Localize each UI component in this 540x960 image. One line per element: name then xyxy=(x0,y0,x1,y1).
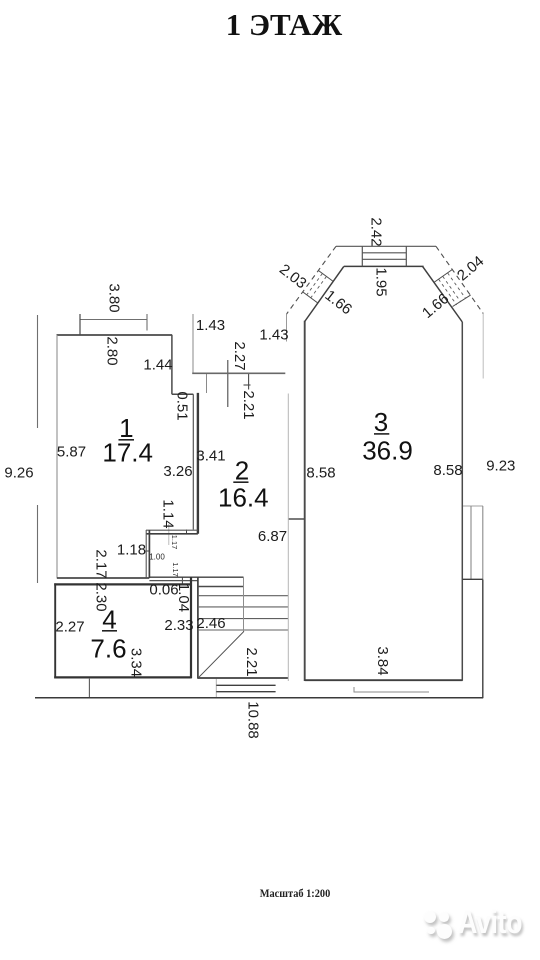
wire xyxy=(192,314,194,373)
wire xyxy=(405,246,407,266)
wire xyxy=(287,246,336,314)
wire xyxy=(148,530,150,578)
svg-text:3.26: 3.26 xyxy=(163,463,192,480)
svg-text:2.27: 2.27 xyxy=(231,341,248,370)
svg-text:1.95: 1.95 xyxy=(373,267,390,296)
wire xyxy=(190,577,192,678)
title 1 ЭТАЖ xyxy=(14,7,540,43)
wire xyxy=(149,580,198,582)
wire xyxy=(216,691,275,693)
wire xyxy=(439,279,457,305)
wire xyxy=(244,384,251,386)
wire xyxy=(192,372,285,374)
svg-text:2.17: 2.17 xyxy=(93,549,110,578)
wire xyxy=(56,335,58,579)
svg-text:9.23: 9.23 xyxy=(486,457,515,474)
wire xyxy=(443,276,461,302)
wire xyxy=(79,314,81,336)
wire xyxy=(198,606,289,608)
svg-text:1.43: 1.43 xyxy=(259,326,288,343)
wire xyxy=(305,679,463,681)
svg-text:3.41: 3.41 xyxy=(196,447,225,464)
svg-text:1.44: 1.44 xyxy=(143,356,172,373)
wire xyxy=(362,252,406,254)
svg-text:1.17: 1.17 xyxy=(170,535,179,550)
wire xyxy=(215,679,217,698)
wire xyxy=(354,691,429,693)
wire xyxy=(482,314,484,379)
wire xyxy=(318,271,333,282)
wire xyxy=(336,245,436,247)
wire xyxy=(287,394,289,682)
wire xyxy=(181,577,183,585)
svg-text:1.66: 1.66 xyxy=(419,290,452,322)
wire xyxy=(463,578,483,580)
wire xyxy=(303,292,318,303)
wire xyxy=(353,687,355,693)
wire xyxy=(197,393,199,534)
svg-text:3.80: 3.80 xyxy=(106,283,123,312)
wire xyxy=(172,393,193,395)
wire xyxy=(344,265,424,267)
svg-text:2.46: 2.46 xyxy=(196,615,225,632)
wire xyxy=(146,314,148,331)
svg-text:17.4: 17.4 xyxy=(102,438,153,468)
wire xyxy=(54,676,192,678)
svg-text:7.6: 7.6 xyxy=(90,634,126,664)
svg-text:2.21: 2.21 xyxy=(243,647,260,676)
scale label xyxy=(52,888,538,900)
wire xyxy=(248,374,250,390)
wire xyxy=(54,583,56,678)
svg-text:2.80: 2.80 xyxy=(104,336,121,365)
svg-text:1.00: 1.00 xyxy=(149,553,165,562)
svg-text:2.33: 2.33 xyxy=(164,617,193,634)
wire xyxy=(482,506,484,579)
svg-text:16.4: 16.4 xyxy=(218,483,269,513)
svg-text:1.18: 1.18 xyxy=(117,541,146,558)
wire xyxy=(57,577,149,579)
wire xyxy=(146,533,198,535)
svg-text:1.14: 1.14 xyxy=(160,499,177,528)
svg-text:2.03: 2.03 xyxy=(276,261,309,292)
wire xyxy=(463,505,483,507)
wire xyxy=(461,322,463,681)
svg-text:2: 2 xyxy=(235,456,249,486)
wire xyxy=(453,295,471,306)
svg-text:8.58: 8.58 xyxy=(306,464,335,481)
svg-text:3: 3 xyxy=(374,407,388,437)
wire xyxy=(197,577,199,679)
wire xyxy=(198,677,289,679)
wire xyxy=(307,274,323,295)
wire xyxy=(206,374,208,393)
wire xyxy=(198,631,244,678)
wire xyxy=(216,684,275,686)
wire xyxy=(304,321,306,681)
svg-text:2.27: 2.27 xyxy=(55,618,84,635)
wire xyxy=(37,505,39,583)
wire xyxy=(168,524,170,545)
wire xyxy=(436,246,483,313)
wire xyxy=(35,697,483,699)
svg-text:1.17: 1.17 xyxy=(171,562,180,577)
wire xyxy=(186,530,188,535)
wire xyxy=(146,529,198,531)
svg-text:8.58: 8.58 xyxy=(433,462,462,479)
wire xyxy=(434,269,453,282)
wire xyxy=(362,258,406,260)
wire xyxy=(149,576,243,578)
svg-text:1.43: 1.43 xyxy=(196,317,225,334)
wire xyxy=(470,506,472,579)
wire xyxy=(305,266,344,321)
wire xyxy=(80,319,147,321)
svg-text:5.87: 5.87 xyxy=(57,443,86,460)
svg-text:9.26: 9.26 xyxy=(4,464,33,481)
wire xyxy=(145,530,147,578)
svg-text:0.06: 0.06 xyxy=(149,581,178,598)
wire xyxy=(88,679,90,698)
wire xyxy=(361,246,363,266)
svg-text:2.21: 2.21 xyxy=(240,390,257,419)
svg-text:1.04: 1.04 xyxy=(175,583,192,612)
wire xyxy=(54,583,192,585)
wire xyxy=(423,266,463,322)
avito watermark xyxy=(424,911,436,923)
wire xyxy=(198,586,244,588)
svg-text:3.34: 3.34 xyxy=(128,648,145,677)
wire xyxy=(227,360,229,407)
wire xyxy=(171,335,173,394)
wire xyxy=(286,314,288,342)
wire xyxy=(57,334,173,336)
wire xyxy=(198,618,289,620)
svg-text:10.88: 10.88 xyxy=(245,701,262,739)
wire xyxy=(448,273,466,299)
wire xyxy=(289,518,305,520)
svg-text:0.51: 0.51 xyxy=(174,391,191,420)
wire xyxy=(192,394,194,529)
wire xyxy=(311,276,327,297)
wire xyxy=(482,579,484,698)
wire xyxy=(37,315,39,428)
wire xyxy=(243,577,245,632)
svg-text:2.42: 2.42 xyxy=(368,217,385,246)
svg-text:36.9: 36.9 xyxy=(362,436,413,466)
svg-text:3.84: 3.84 xyxy=(374,646,391,675)
wire xyxy=(198,629,289,631)
svg-text:6.87: 6.87 xyxy=(258,528,287,545)
wire xyxy=(198,595,289,597)
wire xyxy=(146,550,151,552)
